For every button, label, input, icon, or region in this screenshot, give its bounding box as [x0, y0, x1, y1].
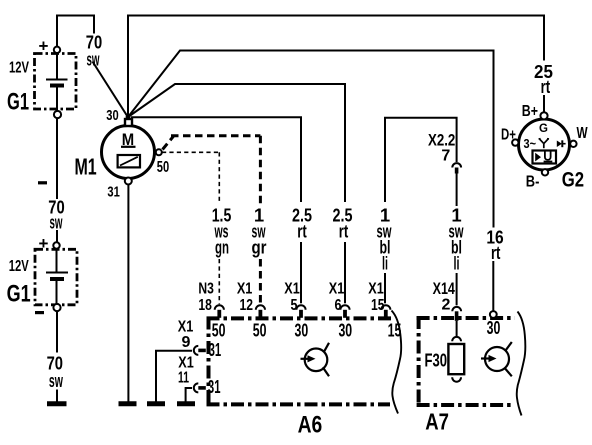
svg-text:rt: rt [339, 220, 349, 241]
A6 torn right edge [392, 311, 402, 414]
svg-text:sw: sw [49, 370, 63, 391]
relay box A7 [417, 316, 515, 406]
svg-text:3~: 3~ [524, 137, 537, 151]
wire battery+ riser 70 sw [57, 16, 94, 51]
ignition lock symbol (A7) [481, 342, 512, 376]
connector N3 18 [215, 305, 224, 310]
dashed wire 1.5 ws gn [162, 152, 219, 304]
svg-text:50: 50 [157, 159, 169, 176]
motor M1 [102, 119, 162, 185]
battery G1 (top) [35, 47, 77, 119]
wire M1 31 to ground [127, 185, 129, 402]
svg-text:30: 30 [295, 321, 309, 341]
svg-text:X1: X1 [178, 318, 194, 335]
svg-text:rt: rt [491, 242, 501, 263]
wire 1 sw bl li jumper (X1 15 to X2.2) [385, 118, 457, 202]
svg-text:30: 30 [338, 321, 352, 341]
svg-text:X1: X1 [237, 281, 253, 298]
svg-text:2: 2 [442, 296, 451, 313]
svg-text:rt: rt [297, 220, 307, 241]
svg-text:X14: X14 [433, 279, 456, 298]
A7 torn right edge [517, 312, 526, 416]
battery G1 (bottom) [35, 242, 77, 311]
svg-text:G2: G2 [562, 168, 584, 191]
wire node30 up to top rail [128, 16, 544, 118]
svg-text:15: 15 [371, 297, 385, 314]
wire 2.5 rt run (X1 6) [128, 84, 345, 202]
svg-text:sw: sw [87, 49, 100, 70]
svg-text:15: 15 [388, 321, 402, 341]
connector X1 12 [256, 305, 265, 310]
svg-text:50: 50 [212, 321, 226, 341]
svg-text:11: 11 [178, 370, 189, 387]
alternator G2 [512, 112, 577, 175]
svg-text:A7: A7 [425, 409, 449, 435]
label minus (battery top) [38, 181, 47, 184]
ground (battery) [47, 401, 67, 406]
connector X1 15 [381, 305, 390, 310]
wire 70 sw diagonal to node 30 [93, 62, 128, 117]
svg-text:31: 31 [107, 185, 119, 201]
svg-text:X1: X1 [368, 281, 384, 298]
svg-text:31: 31 [209, 340, 222, 360]
connector X2.2 7 [452, 163, 461, 167]
svg-text:B-: B- [526, 173, 540, 190]
svg-text:B+: B+ [522, 103, 538, 120]
svg-text:18: 18 [198, 297, 212, 314]
wire 25 rt to G2 B+ [543, 95, 545, 112]
svg-text:X1: X1 [329, 281, 345, 298]
connector X1 9 [194, 346, 198, 355]
svg-text:D+: D+ [501, 127, 516, 144]
svg-text:9: 9 [182, 334, 191, 351]
svg-text:N3: N3 [198, 281, 214, 298]
ground (X1 9) [147, 401, 165, 406]
svg-text:12: 12 [240, 297, 254, 314]
dashed wire 1 sw gr [163, 136, 261, 304]
ground (X1 11) [177, 401, 195, 406]
wire X1 11 to ground [186, 388, 192, 402]
star (3-phase Y) [539, 139, 549, 149]
svg-text:+: + [39, 37, 49, 56]
svg-text:sw: sw [50, 211, 63, 232]
connector X1 5 [296, 305, 305, 310]
wire 16 rt run [128, 51, 494, 228]
svg-text:li: li [382, 253, 388, 274]
wire below X2.2 7 [456, 173, 458, 206]
svg-text:+: + [39, 234, 49, 253]
svg-text:50: 50 [253, 321, 267, 341]
wire 70 sw to ground [56, 311, 58, 352]
svg-text:gr: gr [252, 236, 267, 257]
svg-text:X1: X1 [284, 281, 300, 298]
svg-text:rt: rt [541, 76, 551, 97]
svg-text:F30: F30 [425, 351, 448, 371]
svg-text:30: 30 [487, 318, 501, 338]
svg-text:G1: G1 [7, 88, 29, 115]
svg-text:12V: 12V [9, 258, 29, 275]
node 30 fan [126, 115, 131, 120]
wire between batteries [56, 118, 58, 199]
svg-text:30: 30 [106, 108, 118, 124]
wire 2.5 rt run (X1 5) [131, 117, 301, 202]
svg-text:M1: M1 [75, 154, 97, 180]
svg-text:M: M [122, 130, 134, 149]
connector X1 6 [340, 305, 349, 310]
wire X1 9 to ground [156, 351, 192, 402]
pin 30 on A7 [490, 311, 497, 318]
svg-text:5: 5 [291, 297, 298, 314]
label minus (battery bottom) [35, 311, 44, 314]
svg-text:li: li [454, 253, 460, 274]
svg-text:6: 6 [335, 297, 342, 314]
svg-text:7: 7 [441, 147, 450, 164]
svg-text:gn: gn [215, 236, 229, 257]
fuse F30 [448, 321, 464, 382]
regulator box [533, 151, 557, 164]
svg-text:G1: G1 [7, 281, 31, 308]
svg-text:12V: 12V [9, 60, 29, 77]
svg-text:31: 31 [208, 377, 221, 397]
svg-text:W: W [577, 125, 588, 142]
ground (M1 31) [119, 401, 137, 406]
connector X14 2 [452, 307, 461, 311]
diode [557, 140, 566, 147]
ignition lock symbol (A6) [301, 343, 330, 377]
connector X1 11 [194, 383, 198, 392]
control unit box A6 [207, 317, 393, 405]
svg-text:G: G [539, 123, 548, 135]
svg-text:A6: A6 [298, 412, 323, 439]
svg-text:U: U [543, 149, 552, 163]
